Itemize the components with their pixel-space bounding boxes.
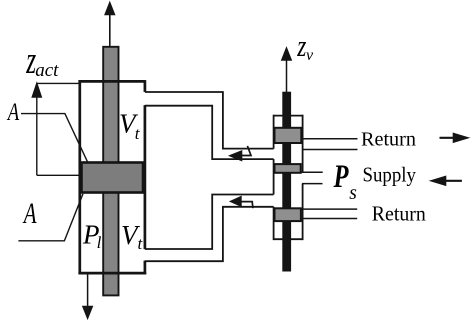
rod top arrow xyxy=(105,2,115,48)
supply channel lines xyxy=(301,172,323,183)
piston xyxy=(82,163,144,193)
A bottom leader line xyxy=(18,194,83,241)
top pipe outer wall xyxy=(145,92,274,149)
top pipe inner wall xyxy=(145,106,274,159)
svg-text:s: s xyxy=(349,183,357,204)
valve spool rod xyxy=(282,92,291,272)
cylinder bottom load arrow xyxy=(83,274,93,319)
bottom pipe lower wall xyxy=(145,207,274,261)
svg-text:A: A xyxy=(6,97,20,125)
z_v arrow xyxy=(282,48,292,93)
valve sleeve outline xyxy=(274,115,303,240)
A top leader line xyxy=(21,114,88,162)
svg-text:Supply: Supply xyxy=(363,162,417,186)
return top channel lines xyxy=(302,139,358,150)
top pipe flow arrow xyxy=(229,146,251,161)
z_act arrowhead xyxy=(32,83,42,97)
z_act dimension lines xyxy=(37,83,79,175)
svg-text:l: l xyxy=(97,233,102,252)
bottom pipe upper wall xyxy=(145,195,274,250)
valve land top xyxy=(275,128,302,143)
svg-text:Return: Return xyxy=(372,202,426,226)
supply flow arrow (left) xyxy=(430,176,462,185)
cylinder body outline xyxy=(78,80,146,274)
svg-text:Return: Return xyxy=(361,129,416,151)
svg-text:P: P xyxy=(333,159,349,195)
return bottom channel lines xyxy=(302,209,358,218)
valve land middle xyxy=(275,164,301,173)
bottom pipe flow arrow xyxy=(230,196,253,208)
svg-text:A: A xyxy=(22,197,37,229)
svg-text:act: act xyxy=(35,60,59,81)
valve land bottom xyxy=(275,208,301,221)
return top flow arrow (right) xyxy=(440,133,469,142)
actuator piston rod xyxy=(103,47,118,296)
svg-text:v: v xyxy=(306,47,314,64)
